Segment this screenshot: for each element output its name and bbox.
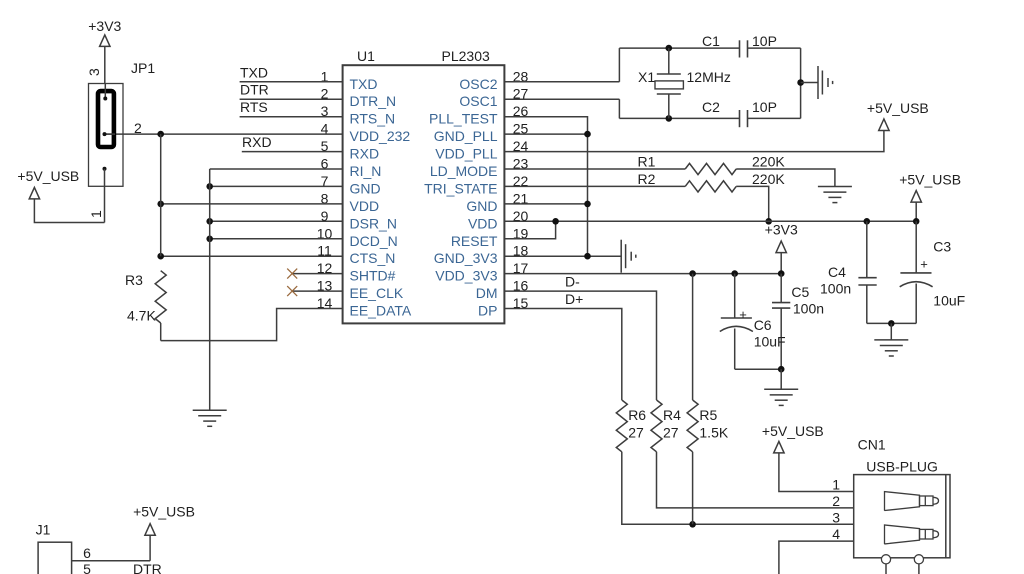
wire C3 C4 bottom join [867, 322, 916, 324]
svg-text:+5V_USB: +5V_USB [133, 504, 195, 520]
junction rail C3 [913, 218, 920, 225]
capacitor C1 10P [739, 40, 741, 57]
svg-text:1: 1 [88, 210, 104, 218]
junction pin 18 chain end [584, 253, 591, 260]
CN1 shield pin left [881, 555, 890, 564]
svg-text:GND_3V3: GND_3V3 [434, 250, 498, 266]
svg-text:2: 2 [134, 120, 142, 136]
CN1 shield pin right [914, 555, 923, 564]
svg-text:C1: C1 [702, 33, 720, 49]
wire R1 to ground [736, 169, 835, 187]
svg-text:220K: 220K [752, 154, 785, 170]
JP1 pin 2 stub inside [105, 133, 116, 135]
svg-text:U1: U1 [357, 48, 375, 64]
power +5V_USB right rail [911, 191, 921, 203]
svg-text:OSC2: OSC2 [459, 76, 497, 92]
svg-text:10uF: 10uF [933, 293, 965, 309]
svg-text:DCD_N: DCD_N [350, 233, 398, 249]
wire crystal right vertical [800, 48, 802, 118]
CN1 USB contact lower [885, 525, 920, 544]
wire pin 12 SHTD# stub [292, 273, 342, 275]
svg-text:3: 3 [832, 509, 840, 525]
svg-text:100n: 100n [793, 301, 824, 317]
svg-text:JP1: JP1 [131, 60, 155, 76]
junction pin19-pin20 [552, 218, 559, 225]
wire R2 to VDD rail [736, 186, 769, 221]
CN1 inner right edge line [945, 475, 947, 558]
svg-text:D+: D+ [565, 291, 583, 307]
svg-text:1: 1 [832, 477, 840, 493]
wire pin 3 RTS stub [240, 116, 343, 118]
junction 3V3 rail R5 [689, 270, 696, 277]
svg-text:VDD: VDD [350, 198, 380, 214]
svg-text:GND: GND [466, 198, 497, 214]
svg-text:PLL_TEST: PLL_TEST [429, 111, 498, 127]
svg-text:D-: D- [565, 274, 580, 290]
wire vertical net x209 RI_N GND chain [209, 169, 211, 410]
junction pin 9 [206, 218, 213, 225]
wire pin 13 EE_CLK stub [292, 290, 342, 292]
svg-text:+: + [739, 307, 747, 322]
wire pin 25 GND_PLL [504, 133, 587, 135]
junction 3V3 rail C6 [731, 270, 738, 277]
wire pin 10 DCD_N [210, 238, 343, 240]
svg-text:EE_DATA: EE_DATA [350, 303, 412, 319]
power +5V_USB left [29, 187, 39, 199]
wire pin 22 R2 left [504, 185, 685, 187]
ground sideways crystal [817, 66, 819, 99]
power +5V_USB CN1 [774, 441, 784, 453]
svg-text:C6: C6 [754, 317, 772, 333]
resistor R3 4.7K [155, 271, 166, 323]
wire pin 20 VDD rail [504, 220, 916, 222]
wire pin 17 VDD_3V3 rail [504, 273, 781, 275]
wire +5V to CN1 pin1 [779, 453, 854, 492]
svg-text:VDD_3V3: VDD_3V3 [435, 268, 497, 284]
wire pin 18 GND_3V3 [504, 255, 621, 257]
no-connect X pin 13 [287, 286, 297, 296]
svg-text:GND: GND [350, 180, 381, 196]
svg-text:+5V_USB: +5V_USB [899, 172, 961, 188]
wire pin 9 DSR_N [210, 220, 343, 222]
JP1 jumper block [98, 91, 114, 147]
ground earth C5 C6 [764, 388, 798, 390]
svg-text:+5V_USB: +5V_USB [17, 168, 79, 184]
wire +5V_USB stem to rail [915, 202, 917, 221]
svg-text:DTR_N: DTR_N [350, 93, 397, 109]
svg-text:PL2303: PL2303 [442, 48, 490, 64]
svg-text:VDD: VDD [468, 215, 498, 231]
svg-text:RI_N: RI_N [350, 163, 382, 179]
svg-text:+3V3: +3V3 [765, 222, 798, 238]
wire pin 14 EE_DATA [161, 309, 343, 341]
JP1 pin 1 stub [103, 167, 107, 171]
junction pin 25 chain [584, 131, 591, 138]
wire pin 2 DTR stub [240, 98, 343, 100]
svg-text:R5: R5 [699, 407, 717, 423]
wire pin 27 OSC1 [504, 98, 619, 100]
crystal X1 12MHz [668, 48, 670, 74]
capacitor C2 10P [739, 110, 741, 127]
wire crystal top rail [619, 47, 739, 49]
junction crystal ground tap [797, 79, 804, 86]
wire pin 7 GND [210, 185, 343, 187]
svg-text:C4: C4 [828, 264, 846, 280]
svg-text:100n: 100n [820, 281, 851, 297]
svg-text:C2: C2 [702, 99, 720, 115]
svg-text:R3: R3 [125, 272, 143, 288]
wire pin 28 OSC2 [504, 81, 619, 83]
wire +3V3 stem to 3V3 rail [780, 253, 782, 274]
capacitor C4 100n [866, 221, 868, 277]
svg-text:J1: J1 [36, 522, 51, 538]
junction 3V3 rail C5 [778, 270, 785, 277]
junction pin 10 [206, 236, 213, 243]
svg-text:RESET: RESET [451, 233, 498, 249]
svg-text:R6: R6 [628, 407, 646, 423]
svg-text:+5V_USB: +5V_USB [762, 423, 824, 439]
junction on pin 4 wire [157, 131, 164, 138]
no-connect X pin 12 [287, 269, 297, 279]
svg-text:USB-PLUG: USB-PLUG [866, 459, 938, 475]
svg-text:R1: R1 [638, 154, 656, 170]
svg-text:SHTD#: SHTD# [350, 268, 396, 284]
wire +5V_USB to JP1 pin1 [34, 199, 104, 223]
wire +3V3 to JP1 pin3 [104, 46, 106, 83]
wire pin 8 VDD [161, 203, 343, 205]
svg-text:LD_MODE: LD_MODE [430, 163, 498, 179]
wire stem to ground C5C6 [780, 369, 782, 389]
power +5V_USB crystal area [879, 119, 889, 131]
J1 pin 6 wire [72, 560, 151, 562]
svg-text:DP: DP [478, 303, 497, 319]
wire C2 right to corner [748, 117, 801, 119]
wire C6 to C5 bottom [735, 368, 782, 370]
resistor R4 27 [651, 400, 662, 452]
ground sideways pin 18 [620, 240, 622, 273]
junction pin 11 [157, 253, 164, 260]
connector JP1 outline [89, 84, 124, 187]
svg-text:X1: X1 [638, 69, 655, 85]
svg-text:+3V3: +3V3 [88, 18, 121, 34]
svg-text:C5: C5 [791, 284, 809, 300]
svg-text:DTR: DTR [240, 82, 269, 98]
JP1 pin 3 stub [104, 84, 106, 99]
capacitor C5 100n [780, 274, 782, 303]
svg-text:C3: C3 [933, 239, 951, 255]
svg-text:10P: 10P [752, 99, 777, 115]
svg-text:220K: 220K [752, 171, 785, 187]
svg-text:10uF: 10uF [754, 334, 786, 350]
junction pin 7 [206, 183, 213, 190]
resistor R1 220K [685, 163, 736, 174]
svg-text:TRI_STATE: TRI_STATE [424, 180, 497, 196]
svg-text:CTS_N: CTS_N [350, 250, 396, 266]
resistor R5 1.5K [692, 274, 694, 400]
wire OSC1 riser to crystal bottom rail [618, 99, 620, 118]
svg-text:1.5K: 1.5K [699, 425, 728, 441]
svg-text:VDD_PLL: VDD_PLL [435, 146, 497, 162]
svg-text:2: 2 [832, 493, 840, 509]
ground earth C3 C4 [874, 339, 908, 341]
svg-text:+5V_USB: +5V_USB [867, 100, 929, 116]
svg-text:RXD: RXD [242, 134, 272, 150]
power +3V3 top [100, 35, 110, 47]
junction C3C4 ground [888, 320, 895, 327]
wire R4 down to CN1 pin2 [657, 452, 854, 508]
svg-text:R2: R2 [638, 171, 656, 187]
svg-text:RTS: RTS [240, 99, 268, 115]
svg-text:CN1: CN1 [858, 437, 886, 453]
svg-text:RXD: RXD [350, 146, 380, 162]
wire pin 19 RESET to VDD [504, 221, 555, 239]
svg-text:TXD: TXD [350, 76, 378, 92]
wire pin 16 DM to R4 [504, 291, 656, 400]
svg-text:27: 27 [628, 425, 644, 441]
junction X1 bottom [666, 115, 673, 122]
wire pin 15 DP to R6 [504, 309, 621, 401]
svg-text:DM: DM [476, 285, 498, 301]
wire pin 1 TXD stub [240, 81, 343, 83]
wire pin 6 RI_N [210, 168, 343, 170]
wire pin 24 VDD_PLL to +5V_USB [504, 131, 884, 152]
wire pin 26 PLL_TEST [504, 117, 587, 257]
svg-text:4.7K: 4.7K [127, 308, 156, 324]
svg-text:DSR_N: DSR_N [350, 215, 397, 231]
junction C5 C6 ground [778, 366, 785, 373]
capacitor C3 10uF polarized [915, 221, 917, 273]
wire vertical net x160 from pin4 to R3 [160, 134, 162, 256]
svg-text:OSC1: OSC1 [459, 93, 497, 109]
wire to crystal ground [801, 82, 818, 84]
svg-text:3: 3 [86, 68, 102, 76]
wire pin 11 CTS_N [161, 255, 343, 257]
ground earth R1 [818, 186, 852, 188]
connector CN1 body [854, 475, 950, 558]
svg-text:6: 6 [83, 545, 91, 561]
wire JP1 pin2 to U1 pin 4 [105, 133, 343, 135]
resistor R6 27 [616, 400, 627, 452]
ground earth below GND chain [193, 409, 227, 411]
svg-text:+: + [920, 257, 928, 272]
wire +5V stem J1 [149, 535, 151, 561]
svg-text:4: 4 [832, 526, 840, 542]
svg-text:RTS_N: RTS_N [350, 111, 396, 127]
svg-text:DTR: DTR [133, 561, 162, 574]
power +5V_USB J1 [145, 524, 155, 536]
wire R5 down [692, 452, 694, 525]
power +3V3 mid [776, 241, 786, 253]
wire pin 5 RXD stub [242, 151, 343, 153]
svg-text:GND_PLL: GND_PLL [434, 128, 498, 144]
wire stem to ground [890, 323, 892, 340]
svg-text:12MHz: 12MHz [687, 69, 731, 85]
wire pin 21 GND [504, 203, 587, 205]
svg-text:27: 27 [663, 425, 679, 441]
svg-text:EE_CLK: EE_CLK [350, 285, 404, 301]
junction rail C4 [864, 218, 871, 225]
wire R6 down to CN1 pin3 [622, 452, 854, 525]
junction pin 21 chain [584, 201, 591, 208]
connector J1 body [38, 542, 72, 574]
svg-text:10P: 10P [752, 33, 777, 49]
capacitor C6 10uF polarized [734, 274, 736, 318]
wire pin 23 R1 left [504, 168, 685, 170]
wire crystal bottom rail [619, 117, 739, 119]
svg-text:5: 5 [83, 561, 91, 574]
wire C1 right to corner [748, 47, 801, 49]
svg-text:TXD: TXD [240, 64, 268, 80]
junction X1 top [666, 45, 673, 52]
svg-text:R4: R4 [663, 407, 681, 423]
svg-text:VDD_232: VDD_232 [350, 128, 411, 144]
resistor R2 220K [685, 181, 736, 192]
junction R5 on pin3 wire [689, 521, 696, 528]
wire OSC2 riser to crystal top rail [618, 48, 620, 82]
junction R2 on VDD rail [765, 218, 772, 225]
wire CN1 pin4 down [779, 541, 854, 574]
op-amp U1 PL2303 IC body [343, 65, 505, 323]
CN1 USB contact upper [885, 492, 920, 511]
junction pin 8 [157, 201, 164, 208]
